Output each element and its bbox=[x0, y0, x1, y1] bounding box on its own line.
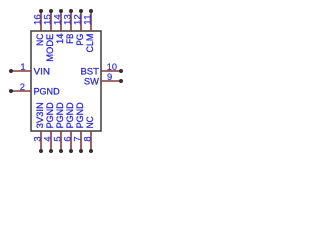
svg-text:NC: NC bbox=[84, 116, 95, 128]
pin 16 NC (top) bbox=[31, 9, 45, 46]
pin 14 14 (top) bbox=[51, 9, 65, 44]
svg-text:SW: SW bbox=[84, 75, 99, 86]
wire pin 11 bbox=[90, 11, 92, 31]
wire pin 1 bbox=[11, 70, 31, 72]
wire pin 5 bbox=[60, 131, 62, 151]
wire pin 9 bbox=[101, 80, 121, 82]
wire pin 6 bbox=[70, 131, 72, 151]
svg-text:8: 8 bbox=[81, 136, 92, 141]
pin 10 BST (right) bbox=[81, 61, 124, 77]
pin 1 connection dot bbox=[9, 69, 13, 73]
pin 5 PGND (bottom) bbox=[51, 102, 65, 153]
pin 14 connection dot bbox=[59, 9, 63, 13]
wire pin 3 bbox=[40, 131, 42, 151]
wire pin 2 bbox=[11, 90, 31, 92]
wire pin 7 bbox=[80, 131, 82, 151]
pin 9 connection dot bbox=[119, 79, 123, 83]
pin 3 3V3IN (bottom) bbox=[31, 102, 45, 153]
pin 15 connection dot bbox=[49, 9, 53, 13]
svg-text:PGND: PGND bbox=[34, 85, 60, 96]
wire pin 15 bbox=[50, 11, 52, 31]
wire pin 12 bbox=[80, 11, 82, 31]
pin 16 connection dot bbox=[39, 9, 43, 13]
pin 4 connection dot bbox=[49, 149, 53, 153]
pin 15 MODE (top) bbox=[41, 9, 55, 62]
IC U1 body bbox=[31, 31, 101, 131]
wire pin 14 bbox=[60, 11, 62, 31]
pin 1 VIN (left) bbox=[9, 61, 50, 77]
pin 5 connection dot bbox=[59, 149, 63, 153]
svg-text:VIN: VIN bbox=[34, 65, 51, 76]
wire pin 13 bbox=[70, 11, 72, 31]
svg-text:11: 11 bbox=[81, 14, 92, 25]
pin 3 connection dot bbox=[39, 149, 43, 153]
pin 7 PGND (bottom) bbox=[71, 102, 85, 153]
wire pin 8 bbox=[90, 131, 92, 151]
pin 11 CLM (top) bbox=[81, 9, 95, 53]
pin 10 connection dot bbox=[119, 69, 123, 73]
pin 8 connection dot bbox=[89, 149, 93, 153]
pin 12 connection dot bbox=[79, 9, 83, 13]
svg-text:CLM: CLM bbox=[84, 34, 95, 53]
pin 13 connection dot bbox=[69, 9, 73, 13]
pin 8 NC (bottom) bbox=[81, 116, 95, 153]
pin 6 connection dot bbox=[69, 149, 73, 153]
pin 12 PG (top) bbox=[71, 9, 85, 46]
svg-text:9: 9 bbox=[107, 71, 112, 82]
svg-text:2: 2 bbox=[20, 81, 25, 92]
pin 11 connection dot bbox=[89, 9, 93, 13]
wire pin 4 bbox=[50, 131, 52, 151]
pin 9 SW (right) bbox=[84, 71, 123, 87]
svg-text:1: 1 bbox=[20, 61, 25, 72]
pin 13 FB (top) bbox=[61, 9, 75, 44]
pin 6 PGND (bottom) bbox=[61, 102, 75, 153]
wire pin 16 bbox=[40, 11, 42, 31]
pin 2 PGND (left) bbox=[9, 81, 60, 97]
pin 2 connection dot bbox=[9, 89, 13, 93]
pin 7 connection dot bbox=[79, 149, 83, 153]
pin 4 PGND (bottom) bbox=[41, 102, 55, 153]
wire pin 10 bbox=[101, 70, 121, 72]
